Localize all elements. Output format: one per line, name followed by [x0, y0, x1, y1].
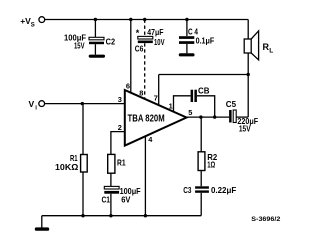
capacitor C1 — [104, 186, 119, 193]
svg-text:10V: 10V — [154, 37, 165, 47]
wire CB to output — [197, 96, 215, 117]
svg-text:6V: 6V — [121, 195, 130, 205]
svg-text:1: 1 — [169, 101, 173, 110]
junction node input / R1 — [81, 102, 84, 105]
capacitor C4 — [179, 36, 194, 53]
junction node bootstrap — [247, 73, 250, 76]
svg-text:TBA 820M: TBA 820M — [128, 114, 165, 125]
svg-text:5: 5 — [188, 108, 192, 117]
resistor R1 — [81, 155, 88, 173]
resistor R2 — [198, 152, 205, 171]
wire C2 stub — [94, 20, 96, 38]
wire speaker down to output node — [247, 53, 249, 117]
wire ground rail — [42, 215, 201, 217]
wire bootstrap horizontal — [159, 74, 249, 76]
op-amp U1 TBA820M — [125, 90, 187, 146]
wire R1f to C1 — [110, 173, 112, 186]
ground below C2 — [89, 55, 105, 58]
svg-text:C1: C1 — [102, 195, 111, 205]
svg-text:0.22μF: 0.22μF — [211, 185, 236, 195]
junction node C1 / ground rail — [109, 214, 112, 217]
wire pin 7 — [158, 75, 160, 106]
svg-text:C5: C5 — [226, 99, 237, 109]
svg-text:0.1μF: 0.1μF — [196, 36, 215, 46]
svg-text:2: 2 — [118, 123, 122, 132]
junction node C2 — [94, 18, 97, 21]
wire dashed pin 8 — [144, 43, 146, 98]
wire dashed to C6 — [144, 20, 146, 37]
junction node C4 — [185, 18, 188, 21]
wire input to pin 3 — [45, 103, 125, 105]
wire R1 top — [82, 104, 84, 155]
svg-text:7: 7 — [154, 93, 158, 102]
svg-text:15V: 15V — [239, 124, 251, 134]
label C2 value 100uF 15V — [64, 33, 86, 51]
svg-text:6: 6 — [126, 82, 130, 91]
resistor R1 (feedback) — [108, 154, 115, 173]
wire top rail down to speaker — [247, 20, 249, 40]
label +Vs — [20, 16, 35, 29]
svg-text:C3: C3 — [183, 185, 191, 195]
svg-text:V: V — [29, 99, 35, 109]
capacitor C3 — [195, 186, 209, 192]
svg-text:47μF: 47μF — [147, 27, 163, 37]
terminal Vi — [39, 101, 45, 107]
svg-text:C2: C2 — [106, 37, 116, 47]
capacitor C5 — [229, 110, 236, 123]
wire ground stub — [41, 216, 43, 228]
svg-text:CB: CB — [198, 86, 210, 96]
svg-text:R1: R1 — [117, 157, 126, 167]
junction node R1 / ground rail — [81, 214, 84, 217]
ground below C4 — [179, 53, 195, 56]
svg-text:C6: C6 — [135, 43, 144, 53]
capacitor C2 — [89, 37, 104, 54]
wire pin 2 to feedback — [111, 132, 125, 155]
svg-text:+V: +V — [20, 16, 31, 26]
junction node R2 branch — [199, 115, 202, 118]
wire R2 top — [200, 117, 202, 152]
wire C5 to speaker node — [236, 116, 248, 118]
wire C3 to ground rail — [200, 193, 202, 216]
wire pin 4 down — [144, 136, 146, 216]
ground symbol — [35, 227, 49, 230]
svg-text:3: 3 — [118, 95, 122, 104]
wire pin 6 — [130, 20, 132, 93]
speaker RL — [244, 31, 258, 60]
svg-text:1Ω: 1Ω — [207, 160, 215, 170]
wire C1 bottom — [110, 194, 112, 216]
wire +Vs top rail — [45, 19, 248, 21]
label C1 value 100uF 6V — [120, 186, 141, 205]
capacitor CB — [191, 90, 197, 102]
wire output pin 5 — [187, 116, 230, 118]
svg-text:10KΩ: 10KΩ — [55, 162, 78, 172]
svg-text:15V: 15V — [74, 41, 85, 51]
wire R2 to C3 — [200, 171, 202, 187]
junction node pin6 wire — [129, 18, 132, 21]
junction node pin 4 / ground rail — [144, 214, 147, 217]
label Vi — [29, 99, 38, 112]
junction node C6 — [143, 18, 146, 21]
wire C4 stub — [186, 20, 188, 37]
svg-text:L: L — [269, 48, 273, 55]
label C6 value 47uF 10V — [147, 27, 164, 47]
terminal +Vs — [39, 17, 45, 23]
wire R1 bottom — [82, 172, 84, 216]
wire pin 1 up to CB — [174, 96, 191, 112]
junction node CB / output — [213, 115, 216, 118]
svg-text:S: S — [31, 23, 35, 29]
label C5 value 220uF 15V — [237, 116, 258, 134]
label RL — [263, 42, 274, 55]
svg-text:S-3696/2: S-3696/2 — [251, 216, 280, 223]
capacitor C6 — [138, 36, 153, 43]
